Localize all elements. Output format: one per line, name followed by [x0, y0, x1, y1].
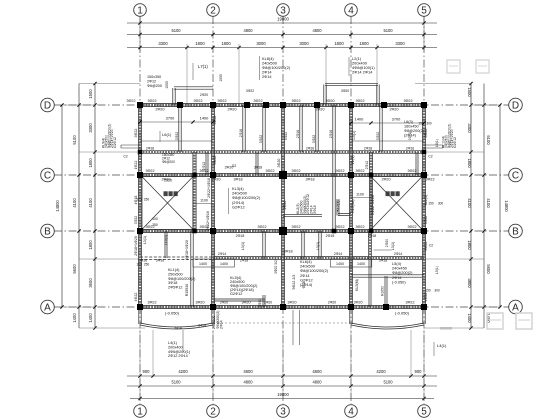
svg-text:1400: 1400 — [357, 262, 365, 266]
svg-text:2Φ16: 2Φ16 — [296, 130, 300, 138]
svg-text:5100: 5100 — [171, 380, 181, 385]
svg-text:3000: 3000 — [256, 41, 266, 46]
svg-text:3Φ22: 3Φ22 — [175, 132, 179, 140]
svg-text:1400: 1400 — [72, 313, 77, 323]
svg-text:3Φ22: 3Φ22 — [291, 225, 300, 229]
svg-text:2Φ12: 2Φ12 — [365, 161, 369, 169]
axis line D..A (horizontal grid) — [54, 104, 509, 106]
svg-text:2Φ18: 2Φ18 — [368, 234, 376, 238]
svg-text:6Φ22: 6Φ22 — [424, 242, 428, 251]
svg-text:2Φ18: 2Φ18 — [146, 147, 154, 151]
beam x196 stair east wall — [192, 152, 194, 231]
beam axis B — [140, 228, 424, 230]
svg-text:5Φ22 2/3: 5Φ22 2/3 — [292, 275, 296, 290]
svg-text:1: 1 — [137, 6, 143, 17]
svg-text:3: 3 — [280, 6, 286, 17]
svg-text:L5(1): L5(1) — [352, 130, 356, 140]
svg-text:5100: 5100 — [383, 28, 393, 33]
svg-text:150: 150 — [418, 122, 424, 126]
svg-text:3300: 3300 — [467, 123, 472, 133]
svg-text:L3(1): L3(1) — [391, 242, 395, 250]
svg-text:150: 150 — [428, 202, 434, 206]
svg-text:KL2(3): KL2(3) — [336, 200, 340, 211]
svg-text:3Φ22: 3Φ22 — [405, 301, 414, 305]
svg-text:2Φ14: 2Φ14 — [220, 320, 224, 329]
svg-text:2Φ18: 2Φ18 — [326, 234, 335, 238]
svg-text:G2: G2 — [232, 164, 237, 168]
svg-text:4800: 4800 — [312, 380, 322, 385]
svg-text:2Φ18: 2Φ18 — [236, 234, 245, 238]
stairwell X brace left — [142, 177, 193, 230]
stoop lines below A centre — [292, 310, 294, 345]
svg-text:5100: 5100 — [171, 28, 181, 33]
svg-text:4: 4 — [348, 407, 354, 418]
svg-text:3Φ22: 3Φ22 — [424, 216, 428, 224]
svg-text:3Φ18: 3Φ18 — [379, 259, 387, 263]
wall axis 2 — [210, 105, 212, 307]
svg-text:1800: 1800 — [359, 41, 369, 46]
svg-text:C: C — [512, 171, 519, 182]
svg-text:3300: 3300 — [158, 41, 168, 46]
svg-text:3Φ22: 3Φ22 — [335, 225, 344, 229]
svg-text:2Φ20: 2Φ20 — [381, 178, 390, 182]
columns row D — [137, 102, 143, 108]
balcony arc right — [351, 325, 424, 329]
svg-text:1400: 1400 — [355, 117, 364, 122]
svg-text:3Φ20: 3Φ20 — [241, 301, 250, 305]
svg-text:3Φ20: 3Φ20 — [341, 89, 349, 93]
stair label left — [164, 191, 168, 196]
svg-text:3Φ22: 3Φ22 — [355, 169, 364, 173]
svg-text:C2: C2 — [123, 155, 127, 159]
axis line 1 (vertical grid) — [139, 16, 141, 404]
svg-text:1100: 1100 — [200, 199, 208, 203]
svg-text:2Φ18+1Φ20: 2Φ18+1Φ20 — [134, 236, 138, 256]
svg-text:300: 300 — [434, 289, 440, 293]
beam x180 D-C — [178, 105, 180, 152]
svg-text:3Φ22: 3Φ22 — [291, 169, 300, 173]
svg-text:2Φ18: 2Φ18 — [364, 147, 372, 151]
beam x381 D-C — [379, 105, 381, 152]
stair label right — [386, 191, 390, 196]
svg-text:3Φ22: 3Φ22 — [335, 169, 344, 173]
svg-text:4100: 4100 — [486, 198, 491, 208]
svg-text:200x400: 200x400 — [168, 345, 183, 349]
svg-text:1000: 1000 — [219, 74, 223, 82]
svg-text:150x350: 150x350 — [147, 75, 161, 79]
svg-text:4800: 4800 — [312, 28, 322, 33]
svg-text:2Φ16: 2Φ16 — [306, 147, 314, 151]
svg-text:5Φ30: 5Φ30 — [258, 299, 262, 307]
grid bubble 1 bottom — [134, 405, 147, 418]
svg-text:3Φ22: 3Φ22 — [407, 225, 416, 229]
svg-text:3Φ20: 3Φ20 — [277, 159, 281, 168]
svg-text:2Φ16: 2Φ16 — [406, 147, 414, 151]
svg-text:100: 100 — [152, 217, 158, 221]
svg-text:C2: C2 — [429, 244, 433, 248]
svg-text:3Φ22: 3Φ22 — [425, 178, 434, 182]
svg-text:2Φ14 2Φ14: 2Φ14 2Φ14 — [352, 70, 373, 75]
svg-text:4100: 4100 — [72, 198, 77, 208]
svg-text:1800: 1800 — [195, 41, 205, 46]
watermark top right — [447, 60, 460, 73]
svg-text:2Φ5Φ12: 2Φ5Φ12 — [168, 286, 183, 290]
beam x264 — [262, 105, 264, 152]
wall axis 1 — [137, 105, 139, 307]
svg-text:1400: 1400 — [220, 262, 228, 266]
beam y152 interior — [140, 150, 424, 152]
svg-text:5600: 5600 — [486, 264, 491, 274]
boxed dim 1400 1400 at axis4 — [330, 259, 372, 267]
svg-text:3Φ22: 3Φ22 — [134, 129, 138, 138]
svg-text:5100: 5100 — [486, 135, 491, 145]
svg-text:4800: 4800 — [312, 369, 322, 374]
svg-text:2Φ16: 2Φ16 — [239, 129, 243, 137]
svg-text:1800: 1800 — [88, 240, 93, 250]
svg-text:2Φ20: 2Φ20 — [264, 301, 272, 305]
svg-text:4: 4 — [348, 6, 354, 17]
beam y215.5 KL2 — [283, 213, 322, 215]
svg-text:2Φ20: 2Φ20 — [211, 178, 220, 182]
watermark bottom right — [487, 313, 503, 329]
beam x192 B-A — [190, 231, 192, 307]
svg-text:2Φ14: 2Φ14 — [218, 252, 226, 256]
svg-text:2Φ12: 2Φ12 — [147, 79, 156, 83]
svg-text:3Φ22: 3Φ22 — [134, 216, 138, 224]
svg-text:2Φ18+1Φ20: 2Φ18+1Φ20 — [185, 240, 189, 260]
svg-text:19800: 19800 — [277, 17, 289, 22]
svg-text:L6(1): L6(1) — [162, 132, 172, 137]
svg-text:1: 1 — [137, 407, 143, 418]
svg-text:L6(3): L6(3) — [404, 120, 414, 124]
beam x301 — [299, 105, 301, 152]
svg-text:1800: 1800 — [88, 158, 93, 168]
interior dim 1100 right corridor — [351, 197, 371, 199]
svg-text:2Φ20: 2Φ20 — [220, 301, 228, 305]
svg-text:A: A — [512, 303, 519, 314]
svg-text:250: 250 — [144, 198, 150, 202]
svg-text:2Φ20: 2Φ20 — [283, 201, 287, 210]
svg-text:19800: 19800 — [277, 392, 289, 397]
svg-text:1Φ(1): 1Φ(1) — [351, 155, 355, 164]
svg-text:5100: 5100 — [72, 135, 77, 145]
svg-text:3000: 3000 — [299, 41, 309, 46]
svg-text:2Φ16: 2Φ16 — [329, 130, 333, 138]
terrace edge y323 dashed — [213, 322, 351, 324]
dimension row bottom 900 4200 4800 4800 4200 900 — [127, 375, 437, 377]
svg-text:4200: 4200 — [376, 369, 386, 374]
parapet beam above D right L2 — [325, 82, 378, 84]
svg-text:3800: 3800 — [467, 278, 472, 288]
svg-text:250x500: 250x500 — [168, 272, 183, 276]
columns row C — [137, 172, 143, 178]
svg-text:5: 5 — [421, 407, 427, 418]
dimension column left 5100 4100 5600 — [78, 84, 80, 329]
svg-text:900: 900 — [143, 369, 151, 374]
stairwell X brace right — [371, 177, 422, 230]
svg-text:2: 2 — [210, 6, 216, 17]
svg-text:3Φ20: 3Φ20 — [353, 301, 362, 305]
svg-text:160x450: 160x450 — [404, 125, 419, 129]
svg-text:3Φ22: 3Φ22 — [253, 99, 262, 103]
svg-text:A: A — [44, 303, 51, 314]
svg-text:3Φ22: 3Φ22 — [145, 169, 154, 173]
grid bubble D C B A left — [41, 98, 55, 112]
svg-text:3600: 3600 — [88, 278, 93, 288]
wall axis 4 — [348, 105, 350, 307]
svg-text:L4(1): L4(1) — [168, 341, 178, 345]
svg-text:Φ6@200: Φ6@200 — [147, 84, 162, 88]
svg-text:900: 900 — [415, 369, 423, 374]
svg-text:R15530: R15530 — [185, 284, 189, 297]
svg-text:150: 150 — [425, 289, 431, 293]
dimension column left 1500 3300 1800 4100 1800 3600 1400 — [94, 84, 96, 329]
svg-text:L8(1): L8(1) — [435, 139, 439, 147]
svg-text:2Φ22+1Φ16: 2Φ22+1Φ16 — [206, 211, 210, 231]
svg-text:D: D — [44, 101, 51, 112]
svg-text:100: 100 — [136, 198, 142, 202]
svg-text:3Φ22: 3Φ22 — [265, 169, 274, 173]
svg-text:B: B — [44, 227, 51, 238]
svg-text:C: C — [44, 171, 51, 182]
columns row B — [137, 228, 143, 234]
svg-text:3Φ22: 3Φ22 — [355, 99, 364, 103]
svg-text:2Φ20: 2Φ20 — [161, 178, 170, 182]
svg-text:1800: 1800 — [467, 158, 472, 168]
wall axis 5 — [421, 105, 423, 307]
svg-text:2Φ20: 2Φ20 — [328, 301, 336, 305]
svg-text:2Φ20: 2Φ20 — [385, 239, 389, 247]
beam x244 D-C — [242, 105, 244, 152]
stubs below A — [138, 307, 140, 324]
svg-text:2Φ12: 2Φ12 — [202, 162, 206, 170]
svg-text:3700: 3700 — [166, 116, 175, 121]
beam y276 right — [351, 274, 424, 276]
svg-text:(-0.050): (-0.050) — [395, 311, 410, 316]
svg-text:3700: 3700 — [392, 117, 401, 122]
svg-text:5: 5 — [421, 6, 427, 17]
svg-text:(-0.050): (-0.050) — [165, 311, 180, 316]
beam y300 inner — [213, 298, 265, 300]
svg-text:1Φ22: 1Φ22 — [134, 161, 138, 170]
svg-text:3Φ22: 3Φ22 — [126, 99, 135, 103]
svg-text:Φ6@200: Φ6@200 — [162, 160, 175, 164]
svg-text:3414: 3414 — [198, 324, 206, 328]
svg-text:1400: 1400 — [467, 313, 472, 323]
annotation block KL3 centre — [227, 188, 229, 214]
svg-text:250: 250 — [152, 223, 158, 227]
extension lines right dims — [415, 83, 471, 85]
svg-text:2Φ14: 2Φ14 — [262, 74, 272, 79]
parapet beam above D left L7 — [174, 86, 213, 88]
svg-text:14800: 14800 — [55, 200, 60, 212]
svg-text:2Φ14: 2Φ14 — [394, 252, 402, 256]
beam x370 B-A — [368, 231, 370, 259]
svg-text:1Φ(1): 1Φ(1) — [408, 132, 412, 141]
svg-text:5600: 5600 — [72, 264, 77, 274]
svg-text:3Φ22: 3Φ22 — [424, 129, 428, 138]
svg-text:D: D — [512, 101, 519, 112]
svg-text:1400: 1400 — [200, 116, 209, 121]
svg-text:G2Φ12: G2Φ12 — [113, 137, 117, 148]
svg-text:1500: 1500 — [88, 89, 93, 99]
svg-text:KL3(1A): KL3(1A) — [351, 199, 355, 212]
extension 1500 right — [470, 84, 472, 124]
svg-text:3Φ22: 3Φ22 — [291, 99, 300, 103]
svg-text:4Φ22: 4Φ22 — [134, 293, 138, 302]
dimension row bottom 19800 — [130, 398, 434, 400]
svg-text:2Φ14: 2Φ14 — [334, 252, 342, 256]
beam y258 interior — [140, 256, 213, 258]
svg-text:3Φ22: 3Φ22 — [213, 116, 217, 125]
svg-text:3414: 3414 — [174, 326, 182, 330]
svg-text:3Φ20: 3Φ20 — [195, 301, 204, 305]
beam axis D KL8 — [140, 102, 424, 104]
svg-text:L3(1): L3(1) — [241, 242, 245, 250]
svg-text:1500: 1500 — [165, 81, 169, 89]
svg-text:G2Φ12: G2Φ12 — [453, 137, 457, 148]
svg-text:1800: 1800 — [221, 41, 231, 46]
svg-text:(-0.050): (-0.050) — [392, 279, 406, 284]
svg-text:4800: 4800 — [243, 369, 253, 374]
extension lines top dims — [139, 16, 141, 51]
svg-text:3Φ22: 3Φ22 — [259, 135, 263, 143]
svg-text:3Φ18: 3Φ18 — [254, 166, 262, 170]
beam x334 — [332, 105, 334, 231]
svg-text:3Φ22: 3Φ22 — [257, 225, 266, 229]
svg-text:L5(1): L5(1) — [435, 266, 439, 274]
columns mid walls — [138, 150, 143, 155]
svg-text:2: 2 — [210, 407, 216, 418]
svg-text:C2: C2 — [428, 155, 432, 159]
svg-text:3Φ22: 3Φ22 — [407, 169, 416, 173]
svg-text:3Φ22 3/2: 3Φ22 3/2 — [274, 260, 278, 274]
short verticals y152-175 — [205, 152, 207, 175]
svg-text:Φ8@100/200(2): Φ8@100/200(2) — [168, 277, 196, 281]
svg-text:3: 3 — [280, 407, 286, 418]
svg-text:B: B — [512, 227, 519, 238]
svg-text:3300: 3300 — [395, 41, 405, 46]
svg-text:L3(1): L3(1) — [316, 242, 320, 250]
dimension row bottom 5100 4800 4800 5100 — [127, 385, 437, 387]
svg-text:3Φ22: 3Φ22 — [312, 135, 316, 143]
svg-text:G2Φ12: G2Φ12 — [230, 292, 242, 296]
svg-text:4Φ22: 4Φ22 — [424, 293, 428, 302]
balcony arc left — [140, 325, 213, 329]
svg-text:1800: 1800 — [467, 240, 472, 250]
svg-text:4200: 4200 — [178, 369, 188, 374]
svg-text:100: 100 — [136, 263, 142, 267]
svg-text:3300: 3300 — [88, 123, 93, 133]
beam x166 below B — [164, 231, 166, 258]
svg-text:4800: 4800 — [243, 28, 253, 33]
extension lines left dims — [79, 83, 140, 85]
svg-text:R1653: R1653 — [381, 286, 385, 296]
svg-text:4100: 4100 — [467, 198, 472, 208]
svg-text:3Φ22: 3Φ22 — [147, 99, 156, 103]
dimension column right 5100 4100 5600 — [483, 84, 485, 329]
svg-text:4100: 4100 — [88, 198, 93, 208]
ledge right of axis5 D-C — [424, 144, 443, 146]
interior line y141 left room — [140, 140, 213, 142]
grid bubble 1 top — [134, 4, 147, 17]
svg-text:2Φ22+1Φ16: 2Φ22+1Φ16 — [371, 195, 375, 215]
beam axis C — [140, 172, 424, 174]
dimension row top 5100 4800 4800 5100 — [127, 34, 437, 36]
ledge left of axis1 D-C — [121, 144, 140, 146]
interior dim 1400 3700 right — [351, 122, 424, 124]
svg-text:1400: 1400 — [336, 262, 344, 266]
svg-text:3Φ18: 3Φ18 — [313, 205, 317, 214]
svg-text:3Φ18: 3Φ18 — [168, 281, 177, 285]
svg-text:3Φ22: 3Φ22 — [217, 99, 226, 103]
dimension row top 19800 — [127, 22, 437, 24]
svg-text:3Φ22: 3Φ22 — [213, 156, 217, 165]
beam axis A — [140, 304, 424, 306]
svg-text:300: 300 — [426, 122, 432, 126]
dimension row top 3300 1800 ... — [127, 47, 437, 49]
svg-text:250: 250 — [144, 263, 150, 267]
svg-text:14800: 14800 — [504, 200, 509, 212]
svg-text:2Φ12 2Φ14: 2Φ12 2Φ14 — [168, 354, 188, 358]
svg-text:3Φ16: 3Φ16 — [156, 259, 164, 263]
svg-text:KL5(M): KL5(M) — [355, 279, 359, 291]
boxed dim 1400 1400 at axis2 — [193, 259, 235, 267]
beam stub x338 — [336, 199, 338, 216]
svg-text:2Φ22+1Φ18: 2Φ22+1Φ18 — [207, 178, 211, 198]
svg-text:3Φ18: 3Φ18 — [233, 178, 242, 182]
svg-text:1100: 1100 — [356, 193, 364, 197]
svg-text:3Φ22: 3Φ22 — [193, 99, 202, 103]
dimension column left 14800 — [61, 105, 63, 307]
svg-text:L7(1): L7(1) — [198, 64, 208, 69]
svg-text:3Φ22: 3Φ22 — [403, 99, 412, 103]
svg-text:1400: 1400 — [199, 262, 207, 266]
svg-text:3Φ18: 3Φ18 — [305, 178, 314, 182]
dimension column right 1500 3300 1800 4100 1800 3800 — [470, 84, 472, 329]
grid bubble D C B A right — [509, 98, 523, 112]
svg-text:5Φ22: 5Φ22 — [284, 132, 288, 140]
svg-text:300: 300 — [438, 202, 444, 206]
svg-text:2Φ20: 2Φ20 — [389, 108, 398, 112]
svg-text:L3(1): L3(1) — [143, 236, 147, 244]
svg-text:3Φ22: 3Φ22 — [147, 301, 156, 305]
svg-text:5100: 5100 — [383, 380, 393, 385]
svg-text:3Φ22: 3Φ22 — [355, 225, 364, 229]
svg-text:2Φ18: 2Φ18 — [240, 259, 248, 263]
svg-text:3Φ18: 3Φ18 — [283, 250, 292, 254]
interior dim 3700 1400 left — [140, 121, 213, 123]
svg-text:G2Φ12: G2Φ12 — [232, 204, 245, 209]
svg-text:2Φ20: 2Φ20 — [200, 93, 208, 97]
svg-text:3Φ22: 3Φ22 — [376, 132, 380, 140]
svg-text:3Φ22: 3Φ22 — [246, 89, 254, 93]
svg-text:ΦL8: ΦL8 — [302, 282, 306, 289]
svg-text:1800: 1800 — [334, 41, 344, 46]
svg-text:4800: 4800 — [243, 380, 253, 385]
dimension column right 14800 — [499, 105, 501, 307]
columns row A — [137, 304, 143, 310]
extension lines bottom dims — [139, 330, 141, 399]
svg-text:1400: 1400 — [88, 313, 93, 323]
beam x371 stair west wall — [368, 152, 370, 231]
svg-text:2Φ20: 2Φ20 — [315, 108, 324, 112]
svg-text:KL1(4): KL1(4) — [168, 268, 180, 272]
svg-text:3Φ20: 3Φ20 — [287, 301, 296, 305]
interior dim 1100 left corridor — [195, 203, 214, 205]
svg-text:3Φ20: 3Φ20 — [325, 99, 334, 103]
watermark grey dash — [440, 327, 452, 330]
